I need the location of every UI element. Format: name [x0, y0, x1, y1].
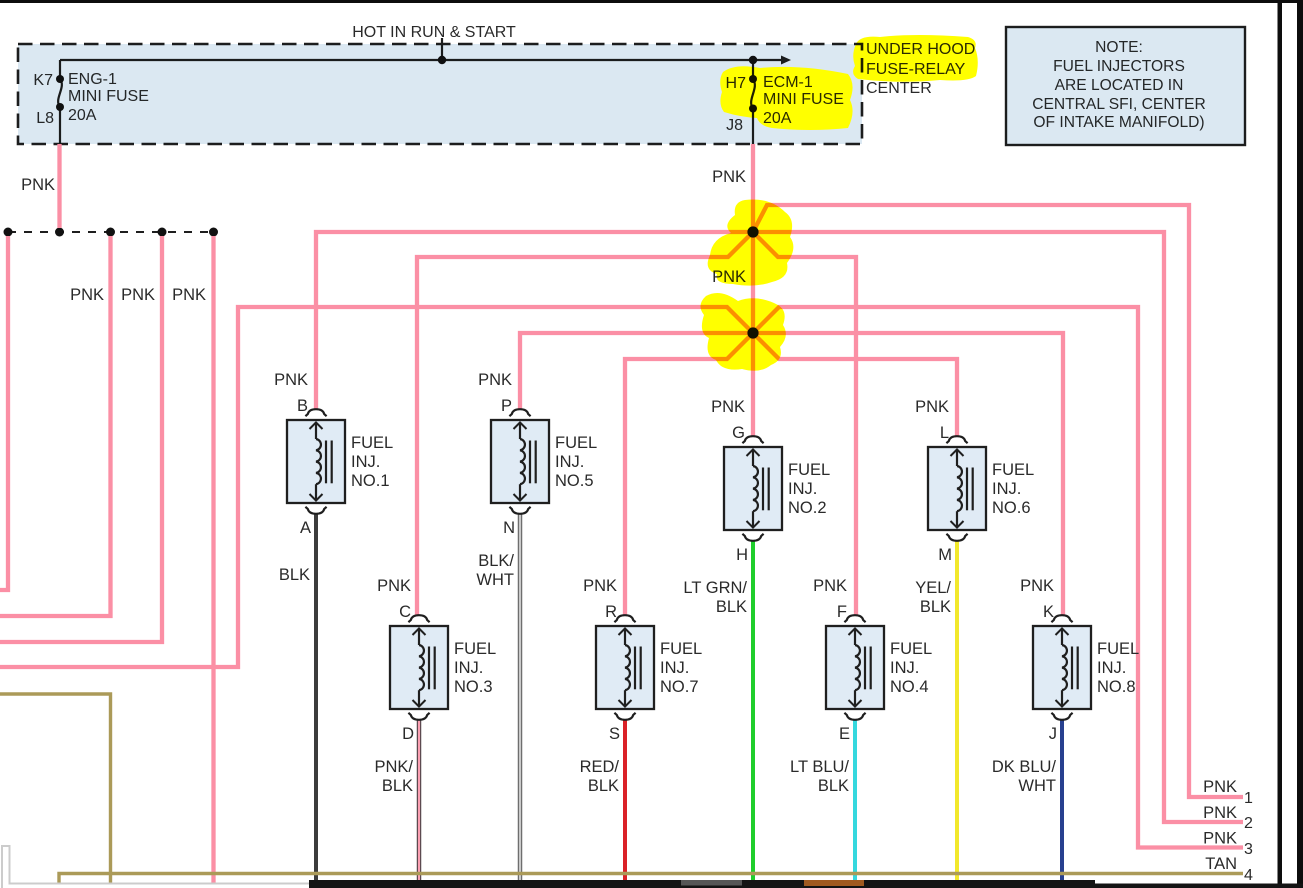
svg-text:PNK: PNK [711, 398, 745, 416]
svg-text:INJ.: INJ. [992, 480, 1021, 498]
svg-text:BLK: BLK [588, 777, 619, 795]
svg-text:INJ.: INJ. [890, 659, 919, 677]
svg-text:E: E [839, 725, 850, 743]
svg-text:BLK: BLK [382, 777, 413, 795]
svg-text:B: B [297, 397, 308, 415]
svg-text:L8: L8 [36, 110, 54, 127]
svg-text:LT GRN/: LT GRN/ [683, 579, 747, 597]
svg-text:PNK: PNK [478, 371, 512, 389]
svg-text:INJ.: INJ. [660, 659, 689, 677]
svg-text:K: K [1043, 603, 1054, 621]
svg-text:ARE LOCATED IN: ARE LOCATED IN [1055, 77, 1184, 94]
svg-text:HOT IN RUN & START: HOT IN RUN & START [352, 24, 516, 41]
svg-text:A: A [300, 519, 311, 537]
svg-text:PNK/: PNK/ [374, 758, 413, 776]
svg-text:MINI FUSE: MINI FUSE [763, 91, 844, 108]
svg-text:P: P [501, 397, 512, 415]
svg-text:NO.4: NO.4 [890, 678, 929, 696]
svg-text:20A: 20A [68, 107, 97, 124]
svg-text:YEL/: YEL/ [915, 579, 951, 597]
svg-text:INJ.: INJ. [555, 453, 584, 471]
svg-text:PNK: PNK [1203, 830, 1237, 848]
svg-text:UNDER HOOD: UNDER HOOD [866, 41, 975, 58]
svg-text:PNK: PNK [172, 286, 206, 304]
svg-text:ENG-1: ENG-1 [68, 71, 117, 88]
svg-text:PNK: PNK [21, 176, 55, 194]
svg-text:L: L [940, 424, 949, 442]
svg-text:FUEL INJECTORS: FUEL INJECTORS [1053, 58, 1185, 75]
svg-text:NO.3: NO.3 [454, 678, 493, 696]
svg-text:S: S [609, 725, 620, 743]
svg-text:PNK: PNK [712, 168, 746, 186]
svg-text:PNK: PNK [274, 371, 308, 389]
svg-text:FUSE-RELAY: FUSE-RELAY [866, 61, 966, 78]
svg-text:20A: 20A [763, 110, 792, 127]
svg-text:WHT: WHT [476, 571, 514, 589]
svg-text:FUEL: FUEL [788, 461, 830, 479]
svg-text:NO.8: NO.8 [1097, 678, 1136, 696]
svg-text:H: H [736, 546, 748, 564]
svg-text:PNK: PNK [70, 286, 104, 304]
svg-text:C: C [399, 603, 411, 621]
svg-text:N: N [503, 519, 515, 537]
svg-text:H7: H7 [726, 75, 747, 92]
svg-text:PNK: PNK [1203, 778, 1237, 796]
svg-text:FUEL: FUEL [992, 461, 1034, 479]
svg-text:FUEL: FUEL [454, 640, 496, 658]
svg-text:M: M [938, 546, 952, 564]
svg-text:PNK: PNK [712, 268, 746, 286]
svg-text:ECM-1: ECM-1 [763, 74, 813, 91]
svg-text:3: 3 [1244, 841, 1253, 858]
svg-text:NOTE:: NOTE: [1095, 39, 1143, 56]
svg-text:BLK: BLK [818, 777, 849, 795]
svg-text:NO.2: NO.2 [788, 499, 827, 517]
svg-text:OF INTAKE MANIFOLD): OF INTAKE MANIFOLD) [1033, 114, 1204, 131]
svg-text:PNK: PNK [813, 577, 847, 595]
svg-text:CENTRAL SFI, CENTER: CENTRAL SFI, CENTER [1032, 96, 1206, 113]
svg-text:PNK: PNK [377, 577, 411, 595]
svg-text:FUEL: FUEL [1097, 640, 1139, 658]
svg-text:J: J [1049, 725, 1057, 743]
svg-text:PNK: PNK [1203, 804, 1237, 822]
svg-text:4: 4 [1244, 867, 1253, 884]
svg-text:NO.5: NO.5 [555, 472, 594, 490]
svg-text:1: 1 [1244, 790, 1253, 807]
svg-text:FUEL: FUEL [890, 640, 932, 658]
svg-text:MINI FUSE: MINI FUSE [68, 88, 149, 105]
svg-text:INJ.: INJ. [788, 480, 817, 498]
svg-text:BLK: BLK [716, 598, 747, 616]
svg-text:FUEL: FUEL [555, 434, 597, 452]
svg-text:2: 2 [1244, 815, 1253, 832]
svg-text:INJ.: INJ. [454, 659, 483, 677]
svg-text:J8: J8 [726, 117, 743, 134]
svg-text:INJ.: INJ. [351, 453, 380, 471]
svg-text:WHT: WHT [1018, 777, 1056, 795]
svg-text:PNK: PNK [583, 577, 617, 595]
svg-text:BLK/: BLK/ [478, 552, 514, 570]
svg-text:LT BLU/: LT BLU/ [790, 758, 849, 776]
svg-text:F: F [837, 603, 847, 621]
svg-text:TAN: TAN [1205, 855, 1237, 873]
svg-text:NO.6: NO.6 [992, 499, 1031, 517]
svg-text:CENTER: CENTER [866, 80, 932, 97]
svg-text:FUEL: FUEL [660, 640, 702, 658]
svg-text:NO.1: NO.1 [351, 472, 390, 490]
svg-text:NO.7: NO.7 [660, 678, 699, 696]
svg-text:BLK: BLK [920, 598, 951, 616]
svg-text:R: R [605, 603, 617, 621]
svg-text:K7: K7 [33, 72, 53, 89]
svg-text:INJ.: INJ. [1097, 659, 1126, 677]
svg-text:FUEL: FUEL [351, 434, 393, 452]
svg-text:DK BLU/: DK BLU/ [992, 758, 1057, 776]
svg-text:PNK: PNK [121, 286, 155, 304]
svg-text:BLK: BLK [279, 566, 310, 584]
svg-text:D: D [402, 725, 414, 743]
svg-text:G: G [732, 424, 745, 442]
svg-text:PNK: PNK [1020, 577, 1054, 595]
svg-text:RED/: RED/ [580, 758, 620, 776]
svg-text:PNK: PNK [915, 398, 949, 416]
